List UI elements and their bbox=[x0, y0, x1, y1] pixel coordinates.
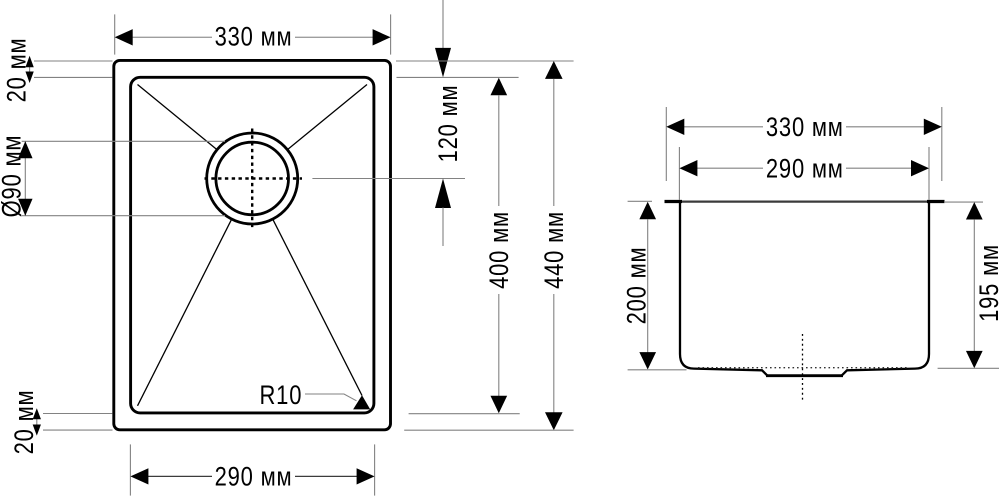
dim 200mm: up arrow bbox=[639, 202, 656, 219]
svg-text:440 мм: 440 мм bbox=[540, 211, 569, 289]
dim 200mm: bottom extension line bbox=[628, 369, 687, 371]
dim 20mm top-left: lower extension line bbox=[34, 76, 113, 78]
dim D90mm: top extension line bbox=[22, 140, 225, 142]
extension of inner top edge to right bbox=[397, 76, 519, 78]
drain centerline vertical bbox=[251, 129, 253, 228]
dim D90mm: bottom extension line bbox=[22, 215, 225, 217]
dim 20mm bottom-left: shaft bbox=[36, 411, 38, 434]
dim 330mm top: right extension line bbox=[390, 14, 392, 54]
sink top flange line right overhang bbox=[927, 200, 945, 203]
dim D90mm: down arrow bbox=[18, 199, 33, 216]
dim 20mm top-left: upper extension line bbox=[34, 60, 113, 62]
dim 400mm: bottom extension line bbox=[409, 413, 520, 415]
dim 400mm: down arrow bbox=[490, 396, 507, 414]
dim 330mm right view: right extension line bbox=[941, 107, 943, 181]
dim 330mm top: left extension line bbox=[114, 14, 116, 54]
dim 440mm: down arrow bbox=[545, 412, 563, 430]
dim 330mm top: right arrow bbox=[373, 29, 391, 45]
drain collar bottom edge bbox=[766, 374, 843, 377]
dim 20mm top-left: up arrow bbox=[25, 56, 33, 68]
svg-text:290 мм: 290 мм bbox=[766, 154, 844, 183]
dim 400mm: lower shaft bbox=[498, 294, 500, 396]
interior bottom dotted line bbox=[698, 367, 908, 369]
dim 120mm: down arrow at inner top edge bbox=[435, 48, 451, 78]
dim 290mm bottom: left extension line bbox=[129, 444, 131, 495]
svg-text:R10: R10 bbox=[260, 381, 303, 410]
dim 120mm: up arrow at drain center line bbox=[435, 179, 451, 209]
svg-text:Ø90 мм: Ø90 мм bbox=[0, 135, 27, 218]
svg-text:400 мм: 400 мм bbox=[485, 211, 514, 289]
dim D90mm: dimension line bbox=[24, 141, 26, 215]
svg-text:20 мм: 20 мм bbox=[10, 390, 39, 455]
dim 290mm right view: left arrow bbox=[679, 160, 697, 176]
dim 440mm: up arrow bbox=[545, 61, 563, 79]
svg-text:195 мм: 195 мм bbox=[975, 244, 1000, 322]
dim 290mm right view: left extension line bbox=[678, 147, 680, 200]
dim 290mm bottom: dimension line bbox=[147, 475, 212, 477]
dim 195mm: shaft bbox=[973, 219, 975, 351]
dim 290mm right view: right extension line bbox=[928, 147, 930, 200]
svg-text:330 мм: 330 мм bbox=[766, 113, 844, 142]
dim 20mm top-left: shaft bbox=[29, 58, 31, 81]
dim 195mm: bottom extension line bbox=[938, 367, 999, 369]
dim 290mm bottom: right extension line bbox=[374, 444, 376, 495]
dim 120mm: lower shaft bbox=[442, 208, 444, 247]
dim 440mm: lower shaft bbox=[553, 294, 555, 413]
dim 120mm: extension line from circle center bbox=[312, 178, 465, 180]
dim 20mm bottom-left: up arrow bbox=[33, 408, 41, 419]
drain centerline horizontal bbox=[205, 177, 303, 179]
dim 330mm right view: dimension line bbox=[683, 126, 763, 128]
dim 290mm bottom: right arrow bbox=[357, 468, 375, 484]
dim 290mm right view: right arrow bbox=[911, 160, 929, 176]
svg-text:290 мм: 290 мм bbox=[215, 463, 293, 492]
dim 330mm top: left arrow bbox=[115, 29, 133, 45]
dim 120mm: upper shaft bbox=[442, 0, 444, 49]
dim 330mm right view: left arrow bbox=[666, 119, 684, 135]
dim D90mm: up arrow bbox=[18, 141, 33, 158]
dim 290mm bottom: left arrow bbox=[130, 468, 148, 484]
sink bowl walls and bottom bbox=[680, 202, 929, 376]
dim 440mm: upper shaft bbox=[553, 79, 555, 206]
diagonal bottom-right bbox=[273, 219, 363, 396]
svg-text:120 мм: 120 мм bbox=[434, 85, 463, 163]
dim 195mm: up arrow bbox=[966, 202, 983, 219]
dim 330mm top: dimension line bbox=[131, 36, 212, 38]
dim 400mm: up arrow bbox=[490, 78, 507, 96]
inner bowl rect bbox=[131, 77, 374, 413]
svg-text:330 мм: 330 мм bbox=[215, 23, 293, 52]
dim 20mm top-left: down arrow bbox=[25, 72, 33, 84]
outer bowl rim rect bbox=[114, 60, 391, 429]
dim 195mm: top extension line bbox=[944, 201, 983, 203]
dim 20mm bottom-left: lower extension line bbox=[43, 429, 113, 431]
R10 corner arrowhead bbox=[353, 395, 370, 409]
drain outer circle bbox=[207, 133, 298, 224]
dim 195mm: down arrow bbox=[966, 351, 983, 368]
dim 330mm right view: right arrow bbox=[924, 119, 942, 135]
sink top rim line bbox=[682, 201, 927, 203]
dim 400mm: upper shaft bbox=[498, 95, 500, 206]
dim 290mm right view: dimension line bbox=[696, 167, 763, 169]
dim 200mm: top extension line bbox=[628, 200, 652, 202]
dim 200mm: down arrow bbox=[639, 352, 656, 369]
extension of outer top edge to right bbox=[396, 60, 574, 62]
dim 330mm right view: left extension line bbox=[665, 107, 667, 181]
dim 440mm: bottom extension line bbox=[404, 429, 573, 431]
R10 leader line bbox=[305, 394, 357, 401]
diagonal top-left bbox=[138, 85, 218, 151]
dim 20mm bottom-left: down arrow bbox=[33, 425, 41, 436]
diagonal top-right bbox=[287, 85, 367, 151]
dim 200mm: shaft bbox=[647, 219, 649, 353]
dim 20mm bottom-left: upper extension line bbox=[43, 413, 113, 415]
svg-text:200 мм: 200 мм bbox=[623, 247, 652, 325]
diagonal bottom-left bbox=[138, 219, 232, 406]
drain dashed centerline bbox=[802, 334, 804, 402]
sink top flange line left overhang bbox=[665, 200, 683, 203]
svg-text:20 мм: 20 мм bbox=[3, 38, 32, 103]
drain inner circle bbox=[216, 142, 289, 215]
